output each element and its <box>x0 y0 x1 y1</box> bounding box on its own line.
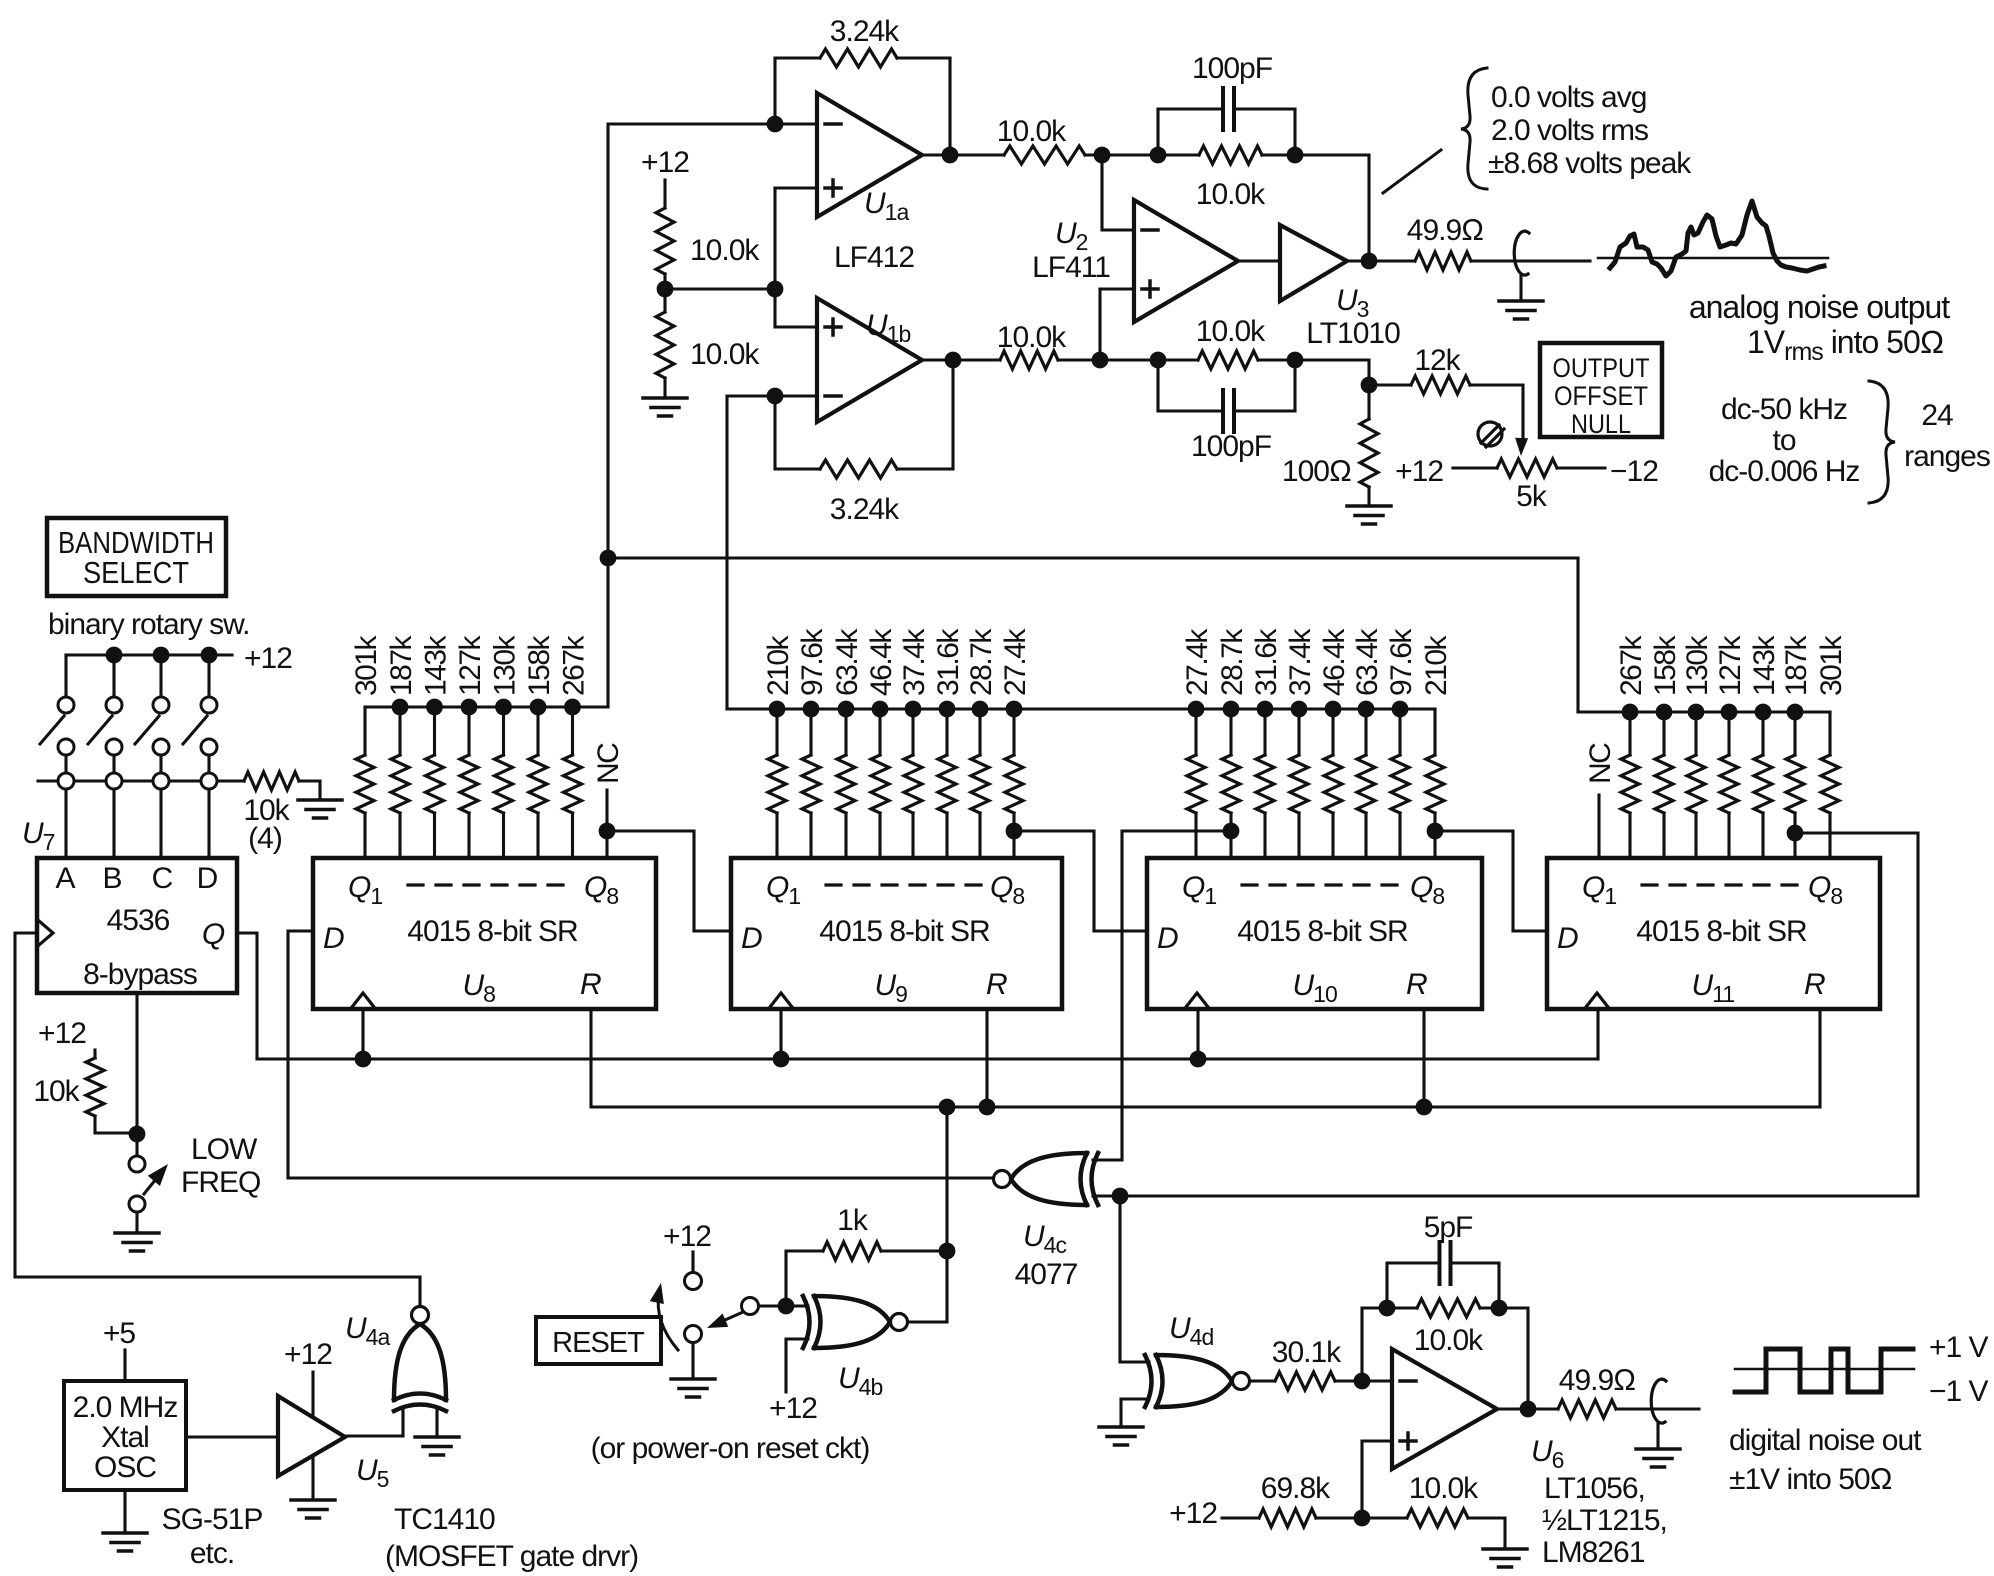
svg-text:10.0k: 10.0k <box>997 115 1067 148</box>
svg-text:49.9Ω: 49.9Ω <box>1407 214 1483 247</box>
svg-text:(4): (4) <box>248 822 282 855</box>
svg-text:LF411: LF411 <box>1032 251 1110 284</box>
svg-text:10.0k: 10.0k <box>1196 315 1266 348</box>
svg-text:210k: 210k <box>762 634 795 696</box>
svg-text:R: R <box>1406 968 1427 1001</box>
svg-text:to: to <box>1772 424 1795 457</box>
svg-text:+12: +12 <box>1395 455 1443 488</box>
svg-text:46.4k: 46.4k <box>1318 628 1351 696</box>
svg-text:LF412: LF412 <box>834 241 914 274</box>
svg-text:63.4k: 63.4k <box>831 628 864 696</box>
svg-text:+1 V: +1 V <box>1929 1331 1989 1364</box>
svg-text:OUTPUT: OUTPUT <box>1553 353 1650 383</box>
svg-text:OFFSET: OFFSET <box>1554 381 1648 411</box>
svg-text:187k: 187k <box>385 634 418 696</box>
svg-text:(MOSFET gate drvr): (MOSFET gate drvr) <box>385 1540 638 1573</box>
svg-text:±1V into 50Ω: ±1V into 50Ω <box>1729 1463 1892 1496</box>
svg-text:NC: NC <box>1584 743 1617 784</box>
svg-text:dc-0.006 Hz: dc-0.006 Hz <box>1709 455 1860 488</box>
svg-text:SELECT: SELECT <box>83 555 189 590</box>
svg-text:46.4k: 46.4k <box>865 628 898 696</box>
svg-text:LT1010: LT1010 <box>1306 317 1400 350</box>
svg-text:100Ω: 100Ω <box>1282 455 1351 488</box>
svg-text:10.0k: 10.0k <box>997 321 1067 354</box>
svg-text:158k: 158k <box>1649 634 1682 696</box>
svg-text:Xtal: Xtal <box>101 1421 149 1454</box>
svg-text:4015 8-bit SR: 4015 8-bit SR <box>1237 915 1408 948</box>
svg-text:SG-51P: SG-51P <box>162 1503 263 1536</box>
svg-text:D: D <box>1557 922 1578 955</box>
svg-text:+5: +5 <box>103 1317 136 1350</box>
svg-text:8-bypass: 8-bypass <box>83 958 197 991</box>
svg-text:−12: −12 <box>1610 455 1658 488</box>
svg-text:158k: 158k <box>523 634 556 696</box>
svg-text:+12: +12 <box>284 1338 332 1371</box>
svg-text:etc.: etc. <box>190 1537 234 1570</box>
svg-text:B: B <box>102 862 121 895</box>
svg-text:10.0k: 10.0k <box>1414 1324 1484 1357</box>
svg-text:2.0 volts rms: 2.0 volts rms <box>1491 114 1648 147</box>
svg-text:R: R <box>1804 968 1825 1001</box>
svg-text:143k: 143k <box>420 634 453 696</box>
svg-text:½LT1215,: ½LT1215, <box>1542 1504 1667 1537</box>
svg-text:24: 24 <box>1921 399 1953 432</box>
svg-text:TC1410: TC1410 <box>394 1503 495 1536</box>
svg-text:RESET: RESET <box>552 1327 645 1359</box>
svg-text:127k: 127k <box>454 634 487 696</box>
svg-text:4077: 4077 <box>1015 1258 1078 1291</box>
svg-text:49.9Ω: 49.9Ω <box>1559 1364 1635 1397</box>
svg-text:30.1k: 30.1k <box>1272 1336 1342 1369</box>
svg-text:D: D <box>197 862 218 895</box>
svg-text:3.24k: 3.24k <box>830 15 900 48</box>
svg-text:267k: 267k <box>1615 634 1648 696</box>
svg-text:27.4k: 27.4k <box>1181 628 1214 696</box>
svg-text:D: D <box>741 922 762 955</box>
svg-text:4536: 4536 <box>107 904 170 937</box>
svg-text:127k: 127k <box>1714 634 1747 696</box>
svg-text:301k: 301k <box>1815 634 1848 696</box>
svg-text:OSC: OSC <box>94 1451 156 1484</box>
svg-text:R: R <box>986 968 1007 1001</box>
svg-text:27.4k: 27.4k <box>999 628 1032 696</box>
svg-text:analog noise output: analog noise output <box>1689 289 1950 325</box>
svg-text:+12: +12 <box>244 642 292 675</box>
svg-text:10.0k: 10.0k <box>690 234 760 267</box>
svg-text:LT1056,: LT1056, <box>1544 1472 1645 1505</box>
svg-text:D: D <box>323 922 344 955</box>
svg-text:63.4k: 63.4k <box>1351 628 1384 696</box>
svg-text:+12: +12 <box>1169 1497 1217 1530</box>
svg-text:FREQ: FREQ <box>181 1166 260 1199</box>
svg-text:10.0k: 10.0k <box>690 338 760 371</box>
svg-text:97.6k: 97.6k <box>796 628 829 696</box>
svg-text:dc-50 kHz: dc-50 kHz <box>1721 393 1847 426</box>
svg-text:binary rotary sw.: binary rotary sw. <box>48 608 249 641</box>
svg-text:37.4k: 37.4k <box>1284 628 1317 696</box>
svg-text:187k: 187k <box>1780 634 1813 696</box>
svg-text:+12: +12 <box>641 146 689 179</box>
svg-text:4015 8-bit SR: 4015 8-bit SR <box>407 915 578 948</box>
svg-text:130k: 130k <box>1681 634 1714 696</box>
svg-text:5pF: 5pF <box>1424 1211 1473 1244</box>
svg-text:4015 8-bit SR: 4015 8-bit SR <box>1636 915 1807 948</box>
svg-text:100pF: 100pF <box>1191 430 1272 463</box>
svg-text:301k: 301k <box>350 634 383 696</box>
svg-text:1k: 1k <box>837 1204 869 1237</box>
svg-text:Q: Q <box>202 918 225 951</box>
svg-text:10k: 10k <box>33 1075 80 1108</box>
svg-text:digital noise out: digital noise out <box>1729 1424 1922 1457</box>
svg-text:31.6k: 31.6k <box>932 628 965 696</box>
svg-text:R: R <box>580 968 601 1001</box>
svg-text:130k: 130k <box>489 634 522 696</box>
svg-text:C: C <box>152 862 173 895</box>
svg-text:4015 8-bit SR: 4015 8-bit SR <box>819 915 990 948</box>
svg-text:10.0k: 10.0k <box>1409 1472 1479 1505</box>
svg-text:69.8k: 69.8k <box>1261 1472 1331 1505</box>
svg-text:+12: +12 <box>38 1017 86 1050</box>
svg-text:A: A <box>55 862 75 895</box>
svg-text:28.7k: 28.7k <box>965 628 998 696</box>
svg-text:97.6k: 97.6k <box>1385 628 1418 696</box>
svg-text:2.0 MHz: 2.0 MHz <box>73 1391 178 1424</box>
svg-text:ranges: ranges <box>1904 440 1990 473</box>
svg-text:1Vrms into 50Ω: 1Vrms into 50Ω <box>1747 324 1943 366</box>
svg-text:±8.68 volts peak: ±8.68 volts peak <box>1488 147 1692 180</box>
svg-text:100pF: 100pF <box>1192 52 1273 85</box>
svg-text:NC: NC <box>592 743 625 784</box>
svg-text:+12: +12 <box>663 1220 711 1253</box>
svg-text:10.0k: 10.0k <box>1196 178 1266 211</box>
svg-text:(or power-on reset ckt): (or power-on reset ckt) <box>591 1432 870 1465</box>
svg-text:37.4k: 37.4k <box>898 628 931 696</box>
svg-text:267k: 267k <box>558 634 591 696</box>
svg-text:3.24k: 3.24k <box>830 493 900 526</box>
svg-text:0.0 volts avg: 0.0 volts avg <box>1491 81 1646 114</box>
svg-text:LOW: LOW <box>191 1133 258 1166</box>
svg-text:LM8261: LM8261 <box>1542 1536 1645 1569</box>
svg-text:−1 V: −1 V <box>1929 1375 1989 1408</box>
svg-text:31.6k: 31.6k <box>1250 628 1283 696</box>
svg-text:143k: 143k <box>1748 634 1781 696</box>
svg-text:12k: 12k <box>1414 344 1461 377</box>
svg-text:NULL: NULL <box>1571 409 1631 439</box>
svg-text:5k: 5k <box>1516 480 1548 513</box>
svg-text:+12: +12 <box>769 1392 817 1425</box>
svg-text:D: D <box>1157 922 1178 955</box>
svg-text:28.7k: 28.7k <box>1216 628 1249 696</box>
svg-text:210k: 210k <box>1420 634 1453 696</box>
